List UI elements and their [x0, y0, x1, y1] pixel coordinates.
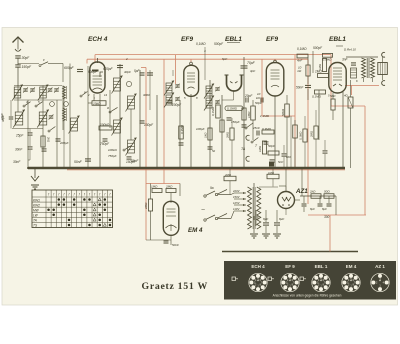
svg-text:30nF: 30nF	[13, 160, 21, 164]
wire red vert x365	[364, 106, 366, 215]
wire lower border line	[222, 251, 358, 253]
svg-text:2MΩ: 2MΩ	[226, 131, 230, 139]
svg-text:MW: MW	[33, 208, 40, 212]
coil small x64 b	[63, 108, 66, 121]
coil ant4	[71, 118, 78, 131]
capacitor 5k foot	[270, 159, 275, 161]
socket EM 4	[342, 273, 360, 291]
svg-text:2kΩ: 2kΩ	[47, 136, 51, 143]
transformer output core	[366, 58, 368, 78]
wire	[17, 59, 19, 65]
wire U bottom	[233, 92, 235, 101]
switch 5	[35, 105, 37, 107]
capacitor 150pF det	[227, 117, 232, 119]
resistor 0.5M box a	[297, 54, 308, 58]
filter capacitor 3	[255, 210, 257, 216]
wire vert x157	[156, 95, 158, 168]
wire vert x140	[139, 70, 141, 168]
switch a2	[123, 149, 125, 151]
capacitor 40pF left edge	[9, 116, 14, 118]
capacitor 750pF	[103, 138, 108, 140]
wire vert x70	[69, 64, 71, 169]
wire vert x313	[312, 51, 314, 73]
jack contact TA upper	[246, 135, 250, 140]
resistor 0.2M	[230, 128, 234, 140]
transformer output primary	[362, 58, 366, 78]
wire vert x316	[315, 110, 317, 126]
capacitor 50pF osc	[127, 156, 132, 158]
socket ECH 4	[249, 273, 267, 291]
wire transformer top	[253, 183, 255, 187]
wire vert x210	[209, 80, 211, 168]
svg-text:EF 9: EF 9	[285, 264, 295, 269]
svg-text:KW2: KW2	[33, 203, 40, 207]
socket AZ 1	[371, 273, 389, 291]
capacitor 100pF IF	[168, 100, 173, 102]
svg-text:2MΩ: 2MΩ	[165, 185, 173, 189]
svg-text:40pF: 40pF	[124, 70, 131, 74]
svg-text:25nF: 25nF	[252, 126, 260, 130]
svg-text:50pF: 50pF	[255, 101, 262, 105]
wire red drop EF9b top cap	[274, 59, 276, 61]
svg-text:p: p	[83, 90, 86, 94]
tube EBL1	[329, 63, 346, 94]
resistor 2M det	[220, 120, 224, 132]
svg-text:a: a	[107, 106, 109, 110]
wire b plus drops	[335, 196, 337, 215]
wire vert x88	[87, 66, 89, 168]
capacitor 50nF at bus	[85, 158, 91, 160]
resistor block right mid b	[314, 126, 318, 139]
switch e	[80, 95, 82, 97]
capacitor grid EF9b	[260, 98, 262, 103]
switch 4	[23, 105, 25, 107]
wire EM4 frame	[146, 239, 171, 241]
svg-text:c: c	[43, 58, 45, 62]
wire red horiz y116	[262, 115, 295, 117]
svg-text:50kΩ: 50kΩ	[281, 108, 285, 116]
wire vert x287	[286, 95, 288, 104]
resistor 0.1M vertical	[216, 105, 221, 118]
svg-text:0,1MΩ: 0,1MΩ	[196, 42, 206, 46]
wire red drop x308 feed	[307, 59, 309, 204]
coil IF2b	[206, 98, 212, 108]
resistor grid stopper	[322, 59, 326, 72]
coil osc2	[128, 96, 135, 109]
wire AZ1 bottom drop	[285, 209, 287, 216]
svg-text:50nF: 50nF	[172, 243, 179, 247]
capacitor 5pF	[140, 72, 145, 74]
tube EF9 second	[266, 63, 284, 97]
capacitor 30pF antenna	[15, 55, 21, 57]
wire red drop x295	[294, 55, 296, 169]
wire red drop x262	[261, 59, 263, 116]
wire EF9 pins	[190, 94, 192, 168]
wire vert x64	[63, 99, 65, 108]
svg-text:25pF: 25pF	[15, 134, 24, 138]
capacitor 25pF	[28, 132, 33, 134]
svg-text:ECH 4: ECH 4	[251, 264, 265, 269]
svg-text:30pF: 30pF	[22, 56, 31, 60]
coil IF1b	[166, 95, 172, 105]
svg-text:130pF: 130pF	[144, 123, 154, 127]
svg-text:5k: 5k	[212, 149, 216, 153]
trimmer C2a	[48, 88, 53, 90]
svg-text:200pF: 200pF	[59, 141, 69, 145]
wire vert x284b	[283, 145, 285, 153]
wire red corner x331	[330, 55, 332, 106]
wire vert x120	[119, 64, 121, 168]
switch d	[48, 130, 50, 132]
svg-text:1MΩ: 1MΩ	[318, 63, 322, 70]
wire	[48, 63, 63, 65]
wire vert x295	[294, 120, 296, 125]
tube AZ1	[278, 192, 295, 209]
svg-text:1MΩ: 1MΩ	[258, 145, 262, 152]
svg-text:EM 4: EM 4	[346, 264, 357, 269]
svg-text:30nF: 30nF	[15, 148, 23, 152]
svg-text:EBL1: EBL1	[329, 36, 346, 43]
wire chassis ground bus	[28, 167, 345, 169]
transformer power core	[252, 187, 254, 229]
svg-text:1kΩ: 1kΩ	[204, 132, 208, 138]
svg-text:100pF: 100pF	[172, 103, 182, 107]
svg-text:100kΩ: 100kΩ	[100, 123, 110, 127]
svg-text:600pF: 600pF	[64, 66, 75, 70]
trimmer circle	[126, 81, 131, 86]
wire EF9b pins	[274, 96, 276, 169]
transformer power secondary winding	[257, 187, 261, 229]
tube EM4	[163, 201, 179, 235]
transformer power primary winding	[248, 187, 252, 229]
wire speaker leads	[363, 78, 365, 82]
wire red horiz y215 power	[308, 214, 366, 216]
wire IF1 top link	[172, 70, 174, 76]
svg-text:750pF: 750pF	[108, 154, 117, 158]
svg-text:14: 14	[104, 93, 108, 97]
svg-text:0,1MΩ: 0,1MΩ	[312, 95, 322, 99]
wire vert x305	[304, 116, 306, 129]
switch mains upper	[204, 195, 206, 197]
wire osc link	[109, 90, 111, 128]
resistor field coil	[311, 194, 321, 199]
wire vert x319b	[318, 90, 320, 140]
resistor 0.1M box	[315, 90, 326, 94]
wire red horiz y85	[345, 85, 379, 87]
resistor 1k8	[208, 128, 212, 140]
wire antenna top branch	[18, 63, 39, 65]
resistor 2k left	[41, 136, 45, 147]
wire vert x18	[17, 86, 19, 113]
svg-text:125V: 125V	[233, 201, 241, 205]
wire red horiz y106	[331, 105, 365, 107]
svg-text:8µF: 8µF	[263, 217, 268, 221]
svg-text:300: 300	[324, 215, 330, 219]
resistor 0.15M box	[225, 106, 243, 111]
capacitor det	[242, 124, 247, 126]
trimmer C1b	[30, 88, 35, 90]
coil osc4	[128, 140, 135, 153]
speaker terminal arc bottom	[382, 81, 385, 86]
switch table grid	[32, 190, 113, 228]
wire vert x350	[350, 80, 352, 97]
resistor 5k vert	[331, 99, 335, 110]
svg-text:2MΩ: 2MΩ	[144, 202, 148, 210]
trimmer 2	[50, 102, 55, 107]
trimmer C1a	[23, 88, 28, 90]
wire tie y128.5	[12, 128, 43, 130]
headphone symbol U	[227, 75, 242, 91]
svg-text:D.Ref.10: D.Ref.10	[344, 48, 356, 52]
wire vert x291	[290, 116, 292, 168]
resistor 10k vert left	[306, 65, 310, 76]
svg-text:8µF: 8µF	[310, 207, 315, 211]
resistor 50k vert	[285, 104, 290, 117]
capacitor 3nF	[351, 62, 356, 64]
capacitor IF foot	[179, 142, 184, 144]
svg-text:EF9: EF9	[266, 36, 278, 43]
wire vert x232	[231, 118, 233, 128]
wire red drop to bottom line	[329, 215, 331, 252]
resistor 10k ohm box	[92, 101, 106, 106]
svg-text:0,3MΩ: 0,3MΩ	[262, 127, 272, 131]
capacitor 100 ohm k	[282, 153, 287, 155]
resistor 1M vert	[251, 106, 256, 120]
resistor det vert	[242, 108, 246, 120]
resistor 0.5M box b	[323, 53, 333, 57]
resistor 2M vert	[293, 125, 298, 138]
wire red heater bus lower	[87, 58, 308, 60]
feedthrough cap	[269, 162, 274, 167]
resistor horiz 1k	[268, 151, 279, 155]
capacitor 8uF b	[303, 196, 305, 203]
jack contact TA lower	[246, 156, 250, 161]
wire IF can top link	[204, 47, 206, 80]
svg-text:EM 4: EM 4	[188, 227, 203, 234]
wire left edge	[10, 100, 12, 116]
wire red heater bus upper	[95, 54, 331, 56]
ground transformer	[253, 229, 255, 233]
resistor horiz 0.3M	[262, 130, 274, 134]
svg-text:100: 100	[286, 155, 291, 159]
capacitor bypass	[208, 146, 213, 148]
tube EF9	[184, 65, 199, 96]
svg-text:0,3MΩ: 0,3MΩ	[180, 124, 184, 134]
svg-text:∼: ∼	[201, 207, 205, 213]
wire vert x308 dk	[307, 58, 309, 65]
switch TS upper	[251, 141, 253, 143]
capacitor 600pF	[77, 68, 83, 70]
coil L2	[40, 87, 47, 98]
svg-text:AZ 1: AZ 1	[375, 264, 385, 269]
svg-text:20pF: 20pF	[244, 94, 253, 98]
capacitor 300pF	[42, 148, 47, 150]
svg-text:2: 2	[125, 57, 128, 61]
junction dots on bus	[27, 167, 29, 169]
wire	[88, 102, 92, 104]
svg-text:Anschlüsse von unten gegen die: Anschlüsse von unten gegen die Röhre ges…	[273, 294, 342, 298]
wire red EM4 frame	[145, 184, 147, 241]
wire red drop EF9 top cap	[190, 59, 192, 62]
capacitor 50pF det2	[264, 141, 269, 143]
wire tie y100	[14, 99, 62, 101]
svg-text:4nF: 4nF	[297, 59, 302, 63]
svg-text:1MΩ: 1MΩ	[268, 171, 275, 175]
resistor block right mid a	[303, 129, 307, 142]
capacitor 20pF	[245, 98, 247, 103]
wire red below chassis bus	[67, 169, 345, 171]
svg-text:10pF: 10pF	[0, 113, 4, 120]
svg-text:EF9: EF9	[181, 36, 193, 43]
svg-text:0,15MΩ: 0,15MΩ	[227, 107, 238, 111]
socket EBL 1	[312, 273, 330, 291]
wire red AVC to EM4	[141, 67, 146, 69]
wire red drop x175	[175, 55, 177, 84]
resistor 2M vert EM4	[148, 199, 152, 211]
svg-text:TA: TA	[33, 219, 37, 223]
svg-text:70pF: 70pF	[247, 61, 256, 65]
capacitor 50nF	[305, 84, 311, 86]
filter capacitor 1	[265, 210, 267, 222]
capacitor 30nF	[28, 146, 33, 148]
svg-text:EBL1: EBL1	[225, 36, 242, 43]
wire vert x180	[179, 100, 181, 168]
switch mains lower	[204, 219, 206, 221]
top cap marks	[232, 277, 236, 281]
svg-text:3pF: 3pF	[250, 69, 255, 73]
tube ECH4	[90, 62, 105, 93]
svg-text:150V: 150V	[233, 195, 241, 199]
svg-text:2MΩ: 2MΩ	[224, 173, 232, 177]
svg-text:1MΩ: 1MΩ	[247, 111, 251, 118]
speaker	[378, 63, 388, 75]
wire vert x180 EM4	[179, 184, 181, 197]
trimmer IF1b	[175, 97, 180, 99]
wire vert x252	[252, 100, 254, 106]
trimmer C3	[49, 115, 54, 117]
capacitor coupling	[256, 131, 258, 136]
capacitor tone box	[351, 68, 357, 78]
svg-text:0,5MΩ: 0,5MΩ	[323, 58, 333, 62]
filter capacitor 2	[276, 210, 278, 222]
trimmer IF2b	[215, 100, 220, 102]
wire to terminals	[382, 57, 384, 63]
svg-text:50nF: 50nF	[74, 160, 83, 164]
wire vert x28	[27, 100, 29, 168]
wire selector to switch	[231, 193, 234, 195]
switch a	[109, 111, 111, 113]
coil L5 big	[15, 112, 23, 125]
wire stubs B	[272, 168, 274, 174]
speaker terminal arc top	[382, 52, 385, 57]
switch TA	[245, 127, 247, 129]
capacitor 70pF	[241, 65, 248, 67]
svg-text:5nF: 5nF	[278, 160, 283, 164]
resistor mains B	[267, 174, 279, 179]
svg-text:600pF: 600pF	[103, 67, 114, 71]
wire vert x244	[243, 57, 245, 168]
resistor 2M EM4	[166, 189, 176, 193]
svg-text:500pF: 500pF	[214, 42, 224, 46]
svg-text:10kΩ: 10kΩ	[93, 102, 101, 106]
wire tube pins down	[93, 94, 95, 101]
table dots	[58, 198, 61, 201]
resistor mains A	[224, 176, 236, 181]
svg-text:100kΩ: 100kΩ	[108, 148, 118, 152]
coil osc3	[114, 120, 121, 133]
svg-text:600pF: 600pF	[88, 70, 98, 74]
svg-text:150pF: 150pF	[22, 65, 33, 69]
wire vert x222	[221, 95, 223, 168]
svg-text:50nF: 50nF	[296, 86, 304, 90]
voltage selector arrows	[234, 192, 246, 194]
wire	[29, 150, 31, 160]
capacitor 150pF	[15, 64, 21, 66]
svg-text:750pF: 750pF	[100, 142, 110, 146]
coil IF2a	[206, 86, 212, 96]
resistor 1M ta	[262, 141, 266, 154]
wire vert x150 dark	[149, 70, 151, 110]
wire vert x63	[62, 86, 64, 131]
transformer output secondary	[371, 58, 375, 78]
svg-text:1MΩ: 1MΩ	[151, 185, 158, 189]
trimmer 3	[64, 102, 69, 107]
svg-text:220V: 220V	[232, 189, 241, 193]
trimmer C2b	[54, 88, 59, 90]
wire tie y85.5	[14, 85, 62, 87]
svg-text:5pF: 5pF	[222, 57, 227, 61]
wire AZ1 top	[285, 186, 287, 192]
resistor 0.1M vert boxed	[348, 97, 353, 108]
wire EM4 bottom	[170, 235, 172, 246]
svg-text:0,1MΩ: 0,1MΩ	[211, 106, 215, 116]
resistor 30k vertical	[179, 126, 184, 139]
coil L6 big	[39, 112, 47, 125]
wire red horiz y183.5	[146, 183, 180, 185]
capacitor 200pF	[56, 138, 61, 140]
resistor 1M EM4	[152, 189, 162, 193]
antenna	[13, 37, 24, 43]
coil osc1	[114, 78, 121, 91]
svg-text:1,1MΩ: 1,1MΩ	[260, 114, 270, 118]
svg-text:0,1MΩ: 0,1MΩ	[299, 131, 303, 140]
svg-text:EBL 1: EBL 1	[315, 264, 328, 269]
wire B plus rail	[300, 195, 336, 197]
capacitor 50nF EM4	[164, 240, 169, 242]
svg-text:2: 2	[87, 93, 90, 97]
coil IF1a	[166, 83, 172, 93]
wire vert x57	[56, 100, 58, 168]
wire top right rail	[346, 56, 378, 58]
svg-text:KW1: KW1	[33, 198, 40, 202]
svg-text:500pF: 500pF	[313, 46, 323, 50]
capacitor 130pF	[140, 120, 145, 122]
wire stubs A	[229, 168, 231, 176]
wire bus to AZ1	[285, 168, 287, 186]
svg-text:100pF: 100pF	[196, 127, 205, 131]
svg-text:0,1MΩ: 0,1MΩ	[297, 47, 307, 51]
resistor 100k ohm	[99, 126, 112, 130]
wire AZ1 out	[295, 199, 301, 201]
trimmer IF1a	[175, 84, 180, 86]
svg-text:50Ω: 50Ω	[324, 190, 330, 194]
svg-text:50pF: 50pF	[268, 144, 275, 148]
svg-text:2MΩ: 2MΩ	[310, 130, 314, 138]
capacitor block right	[319, 196, 321, 203]
svg-text:2kΩ: 2kΩ	[309, 190, 316, 194]
svg-text:AZ1: AZ1	[295, 188, 308, 195]
svg-text:8µF: 8µF	[322, 207, 327, 211]
